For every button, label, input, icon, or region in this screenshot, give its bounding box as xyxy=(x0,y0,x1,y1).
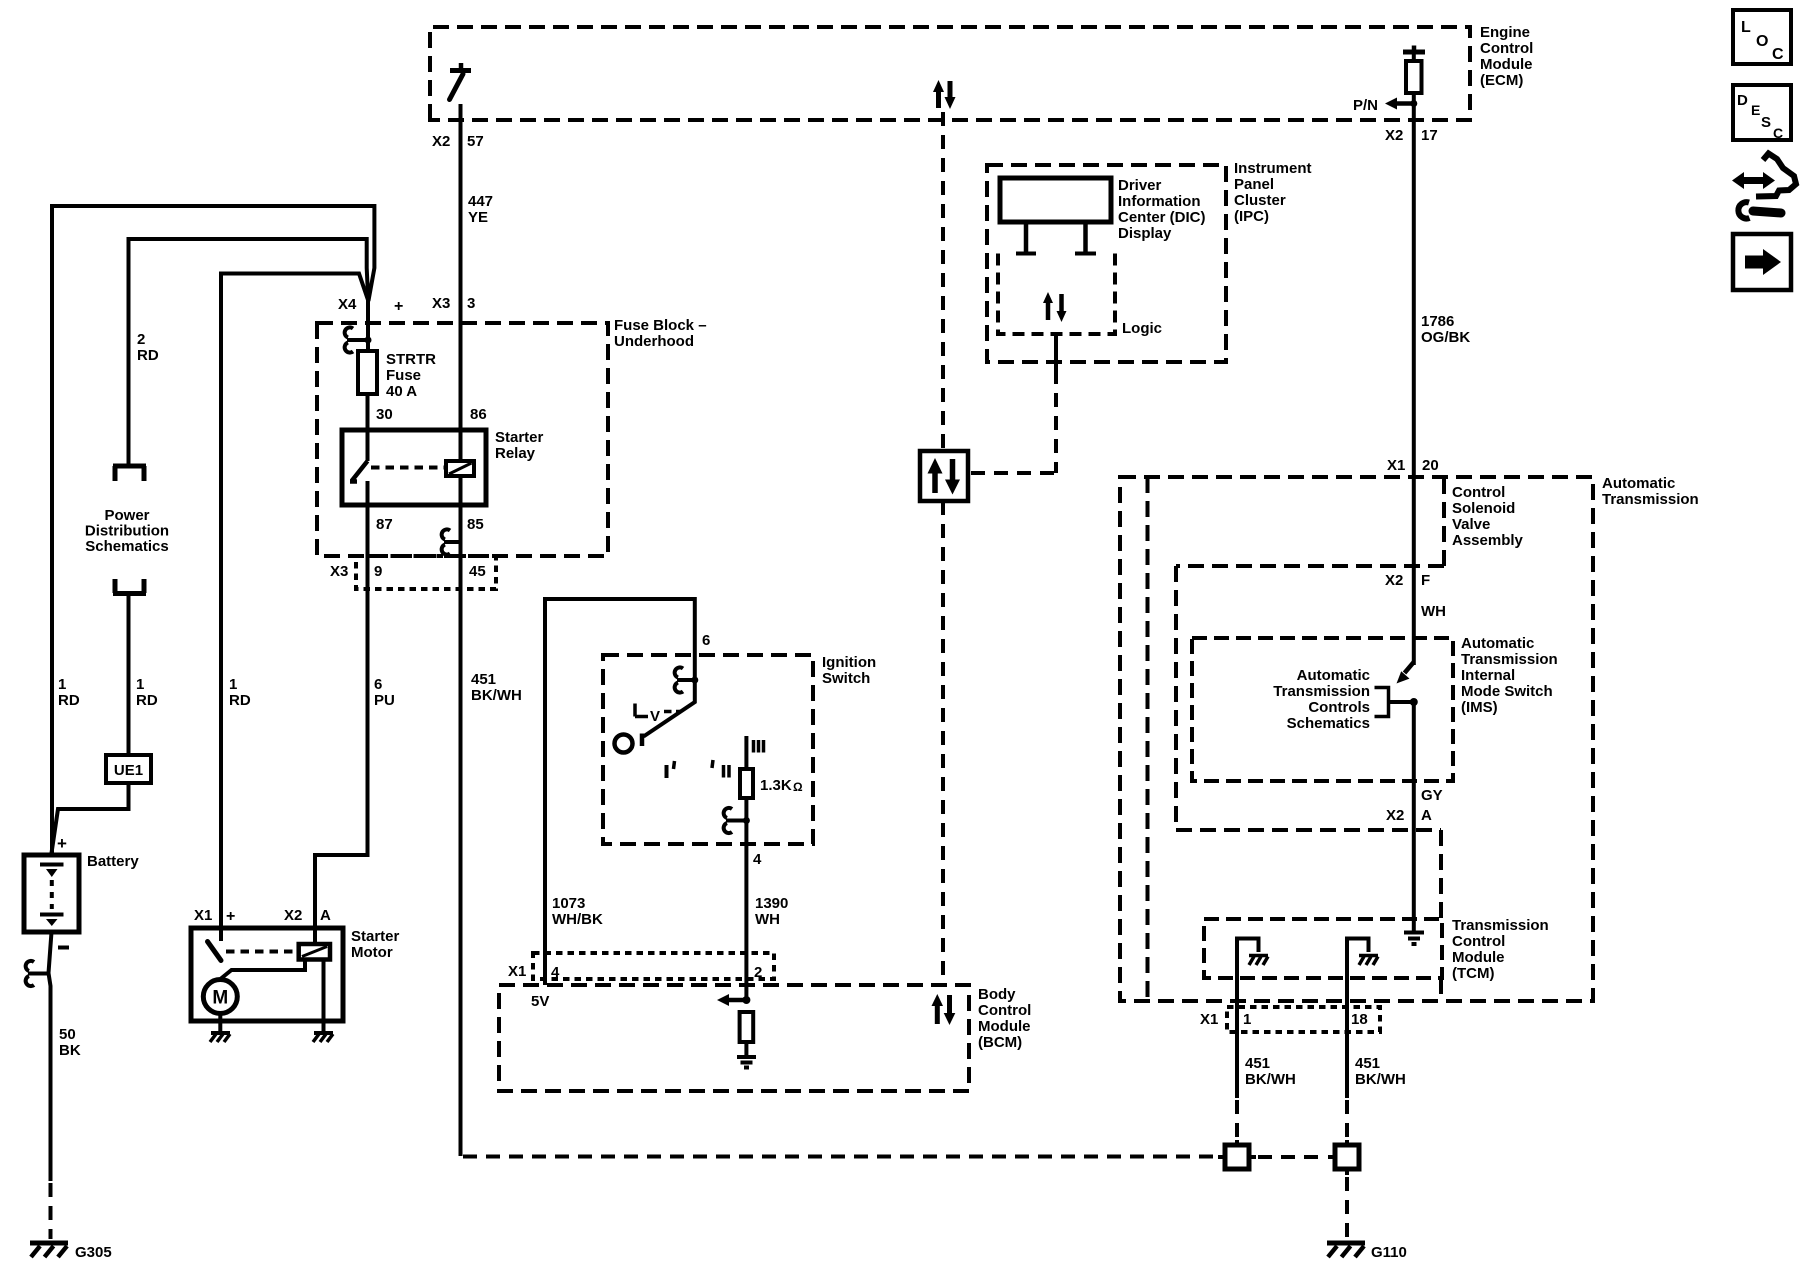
icon hotlink arrows and wrench xyxy=(1743,177,1765,184)
position V mark xyxy=(635,704,648,717)
svg-text:86: 86 xyxy=(470,406,487,423)
BCM box xyxy=(499,985,969,1091)
off-page connector top xyxy=(113,466,146,481)
svg-text:X1: X1 xyxy=(1200,1011,1218,1028)
svg-text:Valve: Valve xyxy=(1452,516,1490,533)
svg-text:Solenoid: Solenoid xyxy=(1452,500,1515,517)
wire motor to ground xyxy=(218,1014,222,1032)
svg-text:4: 4 xyxy=(753,851,762,868)
starter motor box xyxy=(191,928,343,1021)
TCM ground pin 18 xyxy=(1347,939,1369,1099)
svg-text:S: S xyxy=(1761,114,1771,131)
svg-text:30: 30 xyxy=(376,406,393,423)
logic box xyxy=(998,254,1115,335)
ignition resistor wire xyxy=(744,736,748,769)
svg-text:V: V xyxy=(650,708,660,725)
svg-text:447: 447 xyxy=(468,193,493,210)
svg-text:20: 20 xyxy=(1422,457,1439,474)
svg-text:Information: Information xyxy=(1118,193,1201,210)
relay K starter relay box xyxy=(342,430,486,505)
svg-text:17: 17 xyxy=(1421,127,1438,144)
svg-text:(BCM): (BCM) xyxy=(978,1034,1022,1051)
control solenoid valve assembly box xyxy=(1176,478,1444,566)
svg-text:L: L xyxy=(1741,19,1751,36)
svg-text:451: 451 xyxy=(1355,1055,1380,1072)
battery minus terminal xyxy=(58,946,69,950)
svg-text:G305: G305 xyxy=(75,1244,112,1261)
wire resistor to BCM (1390 WH) xyxy=(744,798,748,1000)
dashed wire to G305 xyxy=(49,1183,53,1239)
svg-text:Transmission: Transmission xyxy=(1273,683,1370,700)
ignition switch feed wire (6) xyxy=(545,599,695,985)
svg-text:Control: Control xyxy=(1452,933,1505,950)
wire W2 upper (2 RD) xyxy=(129,239,369,464)
svg-text:2: 2 xyxy=(137,331,145,348)
connector X3 (fuse block bottom) xyxy=(356,556,496,589)
svg-text:BK/WH: BK/WH xyxy=(1355,1071,1406,1088)
splice clip on 85 wire xyxy=(444,540,461,544)
svg-text:Engine: Engine xyxy=(1480,24,1530,41)
svg-text:Transmission: Transmission xyxy=(1461,651,1558,668)
svg-text:(ECM): (ECM) xyxy=(1480,72,1523,89)
relay contact blade xyxy=(350,461,368,482)
svg-text:PU: PU xyxy=(374,692,395,709)
IMS common contact xyxy=(1389,700,1414,704)
svg-text:Assembly: Assembly xyxy=(1452,532,1524,549)
svg-text:+: + xyxy=(57,834,67,853)
wire UE1 to battery xyxy=(52,783,129,853)
svg-text:YE: YE xyxy=(468,209,488,226)
svg-text:A: A xyxy=(320,907,331,924)
svg-text:(TCM): (TCM) xyxy=(1452,965,1494,982)
position I mark xyxy=(665,765,669,778)
svg-text:Logic: Logic xyxy=(1122,320,1162,337)
svg-text:X2: X2 xyxy=(1385,127,1403,144)
node P/N with arrow xyxy=(1410,100,1417,107)
wire W2 lower (1 RD) xyxy=(127,594,131,756)
fuse STRTR 40A xyxy=(358,351,377,394)
ECM crank request switch xyxy=(450,68,471,73)
svg-text:Motor: Motor xyxy=(351,944,393,961)
svg-text:A: A xyxy=(1421,807,1432,824)
svg-text:WH: WH xyxy=(755,911,780,928)
starter solenoid coil xyxy=(299,944,330,960)
icon DESC xyxy=(1733,85,1791,140)
svg-text:1390: 1390 xyxy=(755,895,788,912)
svg-text:RD: RD xyxy=(229,692,251,709)
svg-text:BK/WH: BK/WH xyxy=(1245,1071,1296,1088)
serial data gateway box with arrows xyxy=(920,451,968,501)
svg-text:1: 1 xyxy=(136,676,144,693)
internal harness boundary xyxy=(1176,566,1441,1001)
svg-text:87: 87 xyxy=(376,516,393,533)
off-page connector bottom xyxy=(113,579,146,594)
svg-text:3: 3 xyxy=(467,295,475,312)
svg-text:Control: Control xyxy=(978,1002,1031,1019)
dashed wire to G110 xyxy=(1345,1177,1349,1238)
resistor 1.3K xyxy=(740,769,753,798)
BCM pull-down resistor xyxy=(740,1012,754,1042)
dashed wire TCM pin18 down xyxy=(1345,1100,1349,1145)
svg-text:D: D xyxy=(1737,92,1748,109)
svg-text:Distribution: Distribution xyxy=(85,523,169,540)
wire solenoid to motor xyxy=(221,960,305,979)
wire IMS to TCM ground (GY A) xyxy=(1412,702,1416,931)
svg-text:X4: X4 xyxy=(338,296,357,313)
svg-text:Automatic: Automatic xyxy=(1461,635,1534,652)
chassis ground (solenoid) xyxy=(314,1031,333,1035)
IMS box xyxy=(1192,638,1453,781)
wire battery to G305 (50 BK) xyxy=(49,932,52,1181)
svg-text:Battery: Battery xyxy=(87,853,139,870)
ECM serial data arrows xyxy=(936,91,941,108)
fuse block underhood box xyxy=(317,323,608,556)
icon forward arrow xyxy=(1733,234,1791,290)
svg-text:1: 1 xyxy=(1243,1011,1251,1028)
inner assembly boundary xyxy=(1146,477,1150,1001)
svg-text:Fuse: Fuse xyxy=(386,367,421,384)
svg-text:1073: 1073 xyxy=(552,895,585,912)
svg-text:Body: Body xyxy=(978,986,1016,1003)
svg-text:C: C xyxy=(1773,125,1783,141)
automatic transmission box xyxy=(1120,477,1593,1001)
svg-text:Mode Switch: Mode Switch xyxy=(1461,683,1553,700)
wire solenoid to ground xyxy=(322,960,326,1032)
svg-text:RD: RD xyxy=(58,692,80,709)
svg-text:Ω: Ω xyxy=(793,780,803,794)
svg-text:Ignition: Ignition xyxy=(822,654,876,671)
ignition switch box xyxy=(603,655,813,844)
BCM serial data arrows xyxy=(935,1005,940,1024)
svg-text:5V: 5V xyxy=(531,993,549,1010)
wire relay 85 down (451 BK/WH) xyxy=(459,476,463,1156)
chassis ground (motor) xyxy=(211,1031,230,1035)
svg-text:X1: X1 xyxy=(194,907,212,924)
svg-text:1.3K: 1.3K xyxy=(760,777,792,794)
svg-text:G110: G110 xyxy=(1371,1244,1407,1261)
svg-text:Relay: Relay xyxy=(495,445,536,462)
svg-text:9: 9 xyxy=(374,563,382,580)
svg-text:RD: RD xyxy=(136,692,158,709)
svg-text:Control: Control xyxy=(1452,484,1505,501)
ground G110 xyxy=(1327,1241,1365,1246)
svg-text:GY: GY xyxy=(1421,787,1443,804)
svg-text:Control: Control xyxy=(1480,40,1533,57)
ground G305 xyxy=(30,1241,68,1246)
motor M xyxy=(203,980,237,1014)
ECM box xyxy=(430,27,1470,120)
svg-text:1: 1 xyxy=(229,676,237,693)
svg-text:85: 85 xyxy=(467,516,484,533)
svg-text:Internal: Internal xyxy=(1461,667,1515,684)
svg-text:M: M xyxy=(212,988,228,1009)
svg-text:6: 6 xyxy=(374,676,382,693)
connector UE1 xyxy=(106,755,151,783)
wire 447 YE from ECM to relay coil xyxy=(459,104,463,461)
svg-text:1: 1 xyxy=(58,676,66,693)
svg-text:RD: RD xyxy=(137,347,159,364)
svg-text:X2: X2 xyxy=(284,907,302,924)
svg-text:Automatic: Automatic xyxy=(1602,475,1675,492)
svg-text:45: 45 xyxy=(469,563,486,580)
TCM box xyxy=(1204,919,1442,978)
splice clip on 1390 wire xyxy=(726,819,746,823)
svg-text:WH: WH xyxy=(1421,603,1446,620)
svg-text:Display: Display xyxy=(1118,225,1172,242)
serial data bus (dashed) lower xyxy=(941,501,945,985)
svg-text:C: C xyxy=(1772,46,1784,63)
ignition switch wiper xyxy=(644,680,695,737)
svg-text:40 A: 40 A xyxy=(386,383,417,400)
svg-text:Switch: Switch xyxy=(822,670,870,687)
wire W1 battery feed xyxy=(52,206,374,855)
BCM signal ground xyxy=(737,1055,756,1059)
svg-text:O: O xyxy=(1756,33,1768,50)
svg-text:451: 451 xyxy=(471,671,496,688)
serial data bus (dashed) upper xyxy=(941,112,945,451)
svg-text:X1: X1 xyxy=(1387,457,1405,474)
svg-text:18: 18 xyxy=(1351,1011,1368,1028)
DIC display xyxy=(1000,178,1111,222)
svg-text:57: 57 xyxy=(467,133,484,150)
battery BAT xyxy=(24,855,79,932)
svg-text:1786: 1786 xyxy=(1421,313,1454,330)
DIC display legs xyxy=(1026,222,1086,252)
position II mark xyxy=(712,760,713,768)
svg-text:Schematics: Schematics xyxy=(85,538,168,555)
IMS switch wiper with arrow xyxy=(1405,662,1414,673)
svg-text:Panel: Panel xyxy=(1234,176,1274,193)
svg-text:+: + xyxy=(226,908,235,925)
svg-text:STRTR: STRTR xyxy=(386,351,436,368)
splice pack junction 1 xyxy=(1225,1145,1249,1169)
svg-text:WH/BK: WH/BK xyxy=(552,911,603,928)
splice clip on STRTR fuse wire xyxy=(347,338,368,342)
relay coil xyxy=(446,461,474,476)
svg-text:Module: Module xyxy=(1452,949,1505,966)
svg-text:2: 2 xyxy=(754,964,762,981)
relay actuation dashed link xyxy=(371,466,446,470)
svg-text:Schematics: Schematics xyxy=(1287,715,1370,732)
svg-text:BK/WH: BK/WH xyxy=(471,687,522,704)
wire fuse to relay xyxy=(366,394,370,461)
svg-text:(IMS): (IMS) xyxy=(1461,699,1498,716)
svg-text:X3: X3 xyxy=(432,295,450,312)
svg-text:Module: Module xyxy=(978,1018,1031,1035)
ECM P/N pull-up resistor xyxy=(1403,50,1425,55)
wire W3 (1 RD to starter) xyxy=(221,274,368,942)
svg-text:Center (DIC): Center (DIC) xyxy=(1118,209,1206,226)
svg-text:X2: X2 xyxy=(432,133,450,150)
svg-text:Automatic: Automatic xyxy=(1297,667,1370,684)
svg-text:X3: X3 xyxy=(330,563,348,580)
svg-text:4: 4 xyxy=(551,964,560,981)
svg-text:Starter: Starter xyxy=(351,928,400,945)
dashed link between junctions xyxy=(1258,1155,1326,1159)
svg-text:451: 451 xyxy=(1245,1055,1270,1072)
starter contact blade xyxy=(208,942,222,961)
svg-text:50: 50 xyxy=(59,1026,76,1043)
splice clip on ignition feed xyxy=(677,678,695,682)
connector X1 (BCM) xyxy=(533,953,774,979)
svg-text:6: 6 xyxy=(702,632,710,649)
svg-text:Fuse Block –: Fuse Block – xyxy=(614,317,707,334)
wire relay 87 to starter A (6 PU) xyxy=(315,481,368,944)
wire stub X4 into fuse block xyxy=(366,299,370,352)
TCM ground pin 1 xyxy=(1237,939,1259,1099)
svg-text:Underhood: Underhood xyxy=(614,333,694,350)
svg-text:Controls: Controls xyxy=(1308,699,1370,716)
splice clip on battery ground wire xyxy=(28,972,48,976)
svg-text:Module: Module xyxy=(1480,56,1533,73)
svg-text:Power: Power xyxy=(104,507,149,524)
dashed wire TCM pin1 down xyxy=(1235,1100,1239,1145)
svg-text:Starter: Starter xyxy=(495,429,544,446)
svg-text:UE1: UE1 xyxy=(114,762,143,779)
connector X1 (TCM) xyxy=(1227,1007,1380,1032)
svg-text:OG/BK: OG/BK xyxy=(1421,329,1470,346)
icon LOC xyxy=(1733,10,1791,64)
ignition key contact xyxy=(615,735,633,753)
BCM input arrow xyxy=(742,996,750,1004)
splice pack junction 2 xyxy=(1335,1145,1359,1169)
starter actuation dashed link xyxy=(226,950,297,954)
reference bracket xyxy=(1375,688,1389,717)
position III mark xyxy=(754,740,764,753)
logic serial arrows xyxy=(1046,303,1051,320)
dashed ground path 451 BK/WH xyxy=(463,1155,1218,1159)
svg-text:(IPC): (IPC) xyxy=(1234,208,1269,225)
wire 1786 OG/BK (ECM to IMS) xyxy=(1412,93,1416,665)
svg-text:X1: X1 xyxy=(508,963,526,980)
svg-text:Cluster: Cluster xyxy=(1234,192,1286,209)
svg-text:P/N: P/N xyxy=(1353,97,1378,114)
svg-text:E: E xyxy=(1751,102,1760,118)
svg-text:+: + xyxy=(394,298,403,315)
svg-text:Instrument: Instrument xyxy=(1234,160,1312,177)
svg-text:X2: X2 xyxy=(1386,807,1404,824)
svg-text:X2: X2 xyxy=(1385,572,1403,589)
svg-text:BK: BK xyxy=(59,1042,81,1059)
svg-text:F: F xyxy=(1421,572,1430,589)
TCM signal ground xyxy=(1404,931,1424,935)
svg-text:Driver: Driver xyxy=(1118,177,1162,194)
serial data wire logic to gateway xyxy=(1054,334,1058,370)
IPC box xyxy=(987,165,1226,362)
svg-text:Transmission: Transmission xyxy=(1602,491,1699,508)
svg-text:Transmission: Transmission xyxy=(1452,917,1549,934)
